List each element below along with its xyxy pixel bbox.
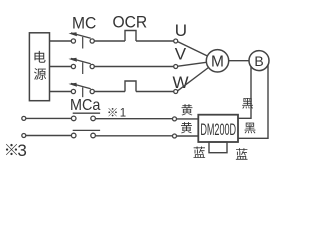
label U <box>175 21 187 40</box>
wire aux row 1 left <box>26 117 71 119</box>
wire L1 OCR to node U <box>136 40 174 42</box>
svg-text:MCa: MCa <box>70 96 101 114</box>
node U terminal <box>174 39 178 43</box>
label 电 <box>34 51 45 63</box>
svg-text:1: 1 <box>120 108 126 120</box>
aux row 2 left terminal <box>22 134 26 138</box>
wire aux row 2 left <box>26 135 71 137</box>
svg-text:V: V <box>175 45 187 64</box>
label 蓝 right <box>236 148 248 159</box>
wire brake lead 2 black <box>238 65 268 139</box>
wire aux row 1 right <box>96 118 173 120</box>
label 黑 top <box>242 98 253 109</box>
aux row 2 right terminal <box>173 134 177 138</box>
svg-text:MC: MC <box>72 14 97 33</box>
label 蓝 left <box>193 146 205 157</box>
wire L2 contact to node V <box>94 66 174 68</box>
svg-text:OCR: OCR <box>112 13 147 32</box>
wire L3 contact to OCR <box>94 91 125 93</box>
wire L1 box to contact <box>50 40 72 42</box>
svg-text:U: U <box>175 21 187 40</box>
wire node V to motor <box>178 62 206 66</box>
wire aux row 1 to rectifier yellow <box>177 118 199 120</box>
wire node U to motor <box>178 42 208 56</box>
wire node W to motor <box>178 68 209 91</box>
contactor MC pole 2 <box>69 58 95 74</box>
label OCR <box>112 13 147 32</box>
label 黄 top <box>182 104 193 115</box>
wire aux row 2 right <box>96 135 173 137</box>
node V terminal <box>174 65 178 69</box>
power source box <box>29 33 49 101</box>
label ※3 <box>6 141 27 160</box>
wire L3 box to contact <box>50 91 72 93</box>
rectifier DM200D box <box>198 115 238 142</box>
label W <box>173 73 189 92</box>
wire motor to brake <box>229 60 249 62</box>
contact MCa row 2 <box>71 130 100 137</box>
label 黑 right <box>245 123 256 134</box>
label 源 <box>34 68 46 80</box>
label MCa <box>70 96 101 114</box>
wire L2 box to contact <box>50 66 72 68</box>
brake B <box>249 51 269 71</box>
contactor MC pole 1 <box>69 32 95 48</box>
OCR heater element L1 <box>125 31 136 42</box>
svg-text:B: B <box>254 53 263 69</box>
label ※1 <box>108 108 126 120</box>
wire aux row 2 to rectifier yellow <box>177 135 199 137</box>
label V <box>175 45 187 64</box>
wire L3 OCR to node W <box>136 91 174 93</box>
label DM200D <box>200 120 236 139</box>
OCR heater element L3 <box>125 81 136 92</box>
contact MCa row 1 <box>71 113 100 121</box>
wire L1 contact to OCR <box>94 40 125 42</box>
aux row 1 right terminal <box>173 117 177 121</box>
wire brake lead 1 black <box>238 67 251 119</box>
svg-text:DM200D: DM200D <box>200 120 236 139</box>
label 黄 bottom <box>181 122 192 133</box>
motor M <box>206 50 228 72</box>
contactor MC pole 3 <box>69 83 95 97</box>
svg-text:3: 3 <box>17 141 26 160</box>
rectifier terminal tab <box>209 142 227 153</box>
svg-text:M: M <box>211 54 224 71</box>
aux row 1 left terminal <box>22 116 26 120</box>
label MC <box>72 14 97 33</box>
node W terminal <box>174 90 178 94</box>
